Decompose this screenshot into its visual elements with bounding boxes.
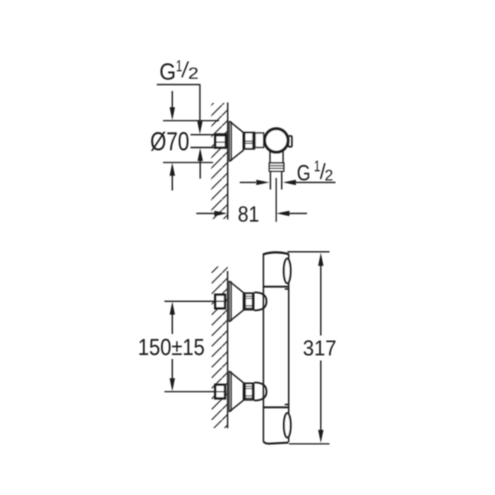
upper separation line [263, 286, 288, 288]
shower hose (truncated) [269, 171, 271, 190]
top knob ellipse [284, 259, 291, 284]
cylinder body of thermostat [263, 252, 288, 443]
dimension 150±15 : bottom extension line [164, 391, 226, 393]
dimension 317 : vertical line with arrows [318, 253, 323, 443]
dimension Ø70 : upper arrow (outside, pointing down) [171, 91, 173, 108]
small tick below upper separation [285, 288, 288, 290]
top cap [263, 252, 288, 254]
escutcheon cone (top view) [229, 121, 243, 162]
dimension 317 : top extension line [288, 251, 330, 253]
bottom S-union: nut [244, 383, 253, 401]
bottom S-union: escutcheon cone [229, 371, 243, 412]
small tick above lower separation [285, 404, 288, 406]
leader line down from G1/2 to pipe with arrow [199, 85, 201, 124]
top S-union: escutcheon cone [229, 281, 243, 322]
dimension text 81 [239, 206, 259, 222]
top S-union: hex stub behind wall [215, 295, 225, 309]
dimension 81 : right arrow pointing left at hose axis [276, 211, 289, 216]
spacer ring between nut and body [255, 133, 264, 147]
wall hatching (top view wall section) [211, 103, 228, 219]
label G1/2 (lower, hose thread) [298, 161, 333, 181]
supply pipe (two horizontal lines) [191, 134, 217, 136]
dimension Ø70 : lower extension line [163, 162, 213, 164]
hose collar with ridges [269, 163, 284, 171]
dimension Ø70 : upper extension line [163, 120, 219, 122]
hose thread dimension: right arrow pointing left + leader under G1/2 [283, 180, 296, 185]
leader underline of top G1/2 [157, 84, 201, 86]
dimension 150±15 : vertical line with arrows [170, 302, 175, 392]
dimension 150±15 : top extension line [164, 300, 226, 302]
counter arrow from below pointing up at pipe bottom [199, 159, 201, 179]
wall hatching (lower view) [212, 267, 228, 429]
wall face line (lower view) [227, 271, 229, 428]
dimension 317 : bottom extension line [289, 443, 330, 445]
dimension text Ø70 [151, 132, 189, 151]
dimension text 150±15 [139, 339, 204, 355]
union nut U1 (top view) [244, 132, 255, 149]
hose thread dimension: left arrow pointing right [240, 181, 256, 183]
bottom S-union: hex stub behind wall [215, 385, 225, 399]
dimension Ø70 : lower arrow (outside, pointing up) [171, 175, 173, 191]
label G1/2 (top, supply thread) [160, 60, 197, 80]
bottom knob ellipse [284, 413, 291, 437]
thermostat body circle (side view) [265, 129, 288, 152]
top S-union: dome boss to cylinder [254, 292, 266, 310]
hose centre line extension [275, 178, 277, 222]
body below circle [269, 151, 271, 163]
bottom cap [264, 442, 289, 444]
wall face line (top view) [227, 103, 229, 220]
top S-union: nut [244, 293, 253, 311]
dimension text 317 [304, 340, 336, 355]
hex stub behind wall (top view) [214, 134, 227, 148]
lower separation line [263, 406, 288, 408]
dimension 81 : left arrow pointing right at wall [196, 212, 214, 214]
bottom S-union: dome boss to cylinder [254, 383, 266, 401]
small knob on right of body [288, 136, 292, 147]
